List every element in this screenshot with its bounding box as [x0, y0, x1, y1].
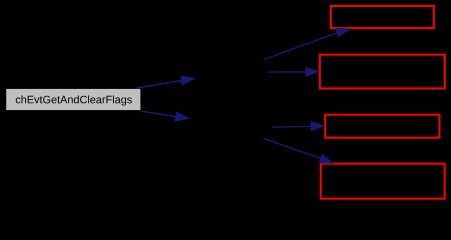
red node 1 (top right) [331, 6, 434, 28]
red node 4 (bottom right) [321, 164, 445, 199]
red node 2 [320, 55, 445, 89]
edge E: lower middle node to red node 3 [272, 121, 325, 131]
edge D: upper middle node to red node 2 [267, 67, 319, 76]
edge C: upper middle node to red node 1 [264, 28, 351, 59]
red node 3 [325, 115, 439, 138]
node chEvtGetAndClearFlags (gray box) [6, 88, 141, 110]
edge B: gray box to lower middle node [141, 111, 189, 121]
edge A: gray box to upper middle node [137, 76, 196, 88]
edge F: lower middle node to red node 4 [263, 139, 333, 164]
